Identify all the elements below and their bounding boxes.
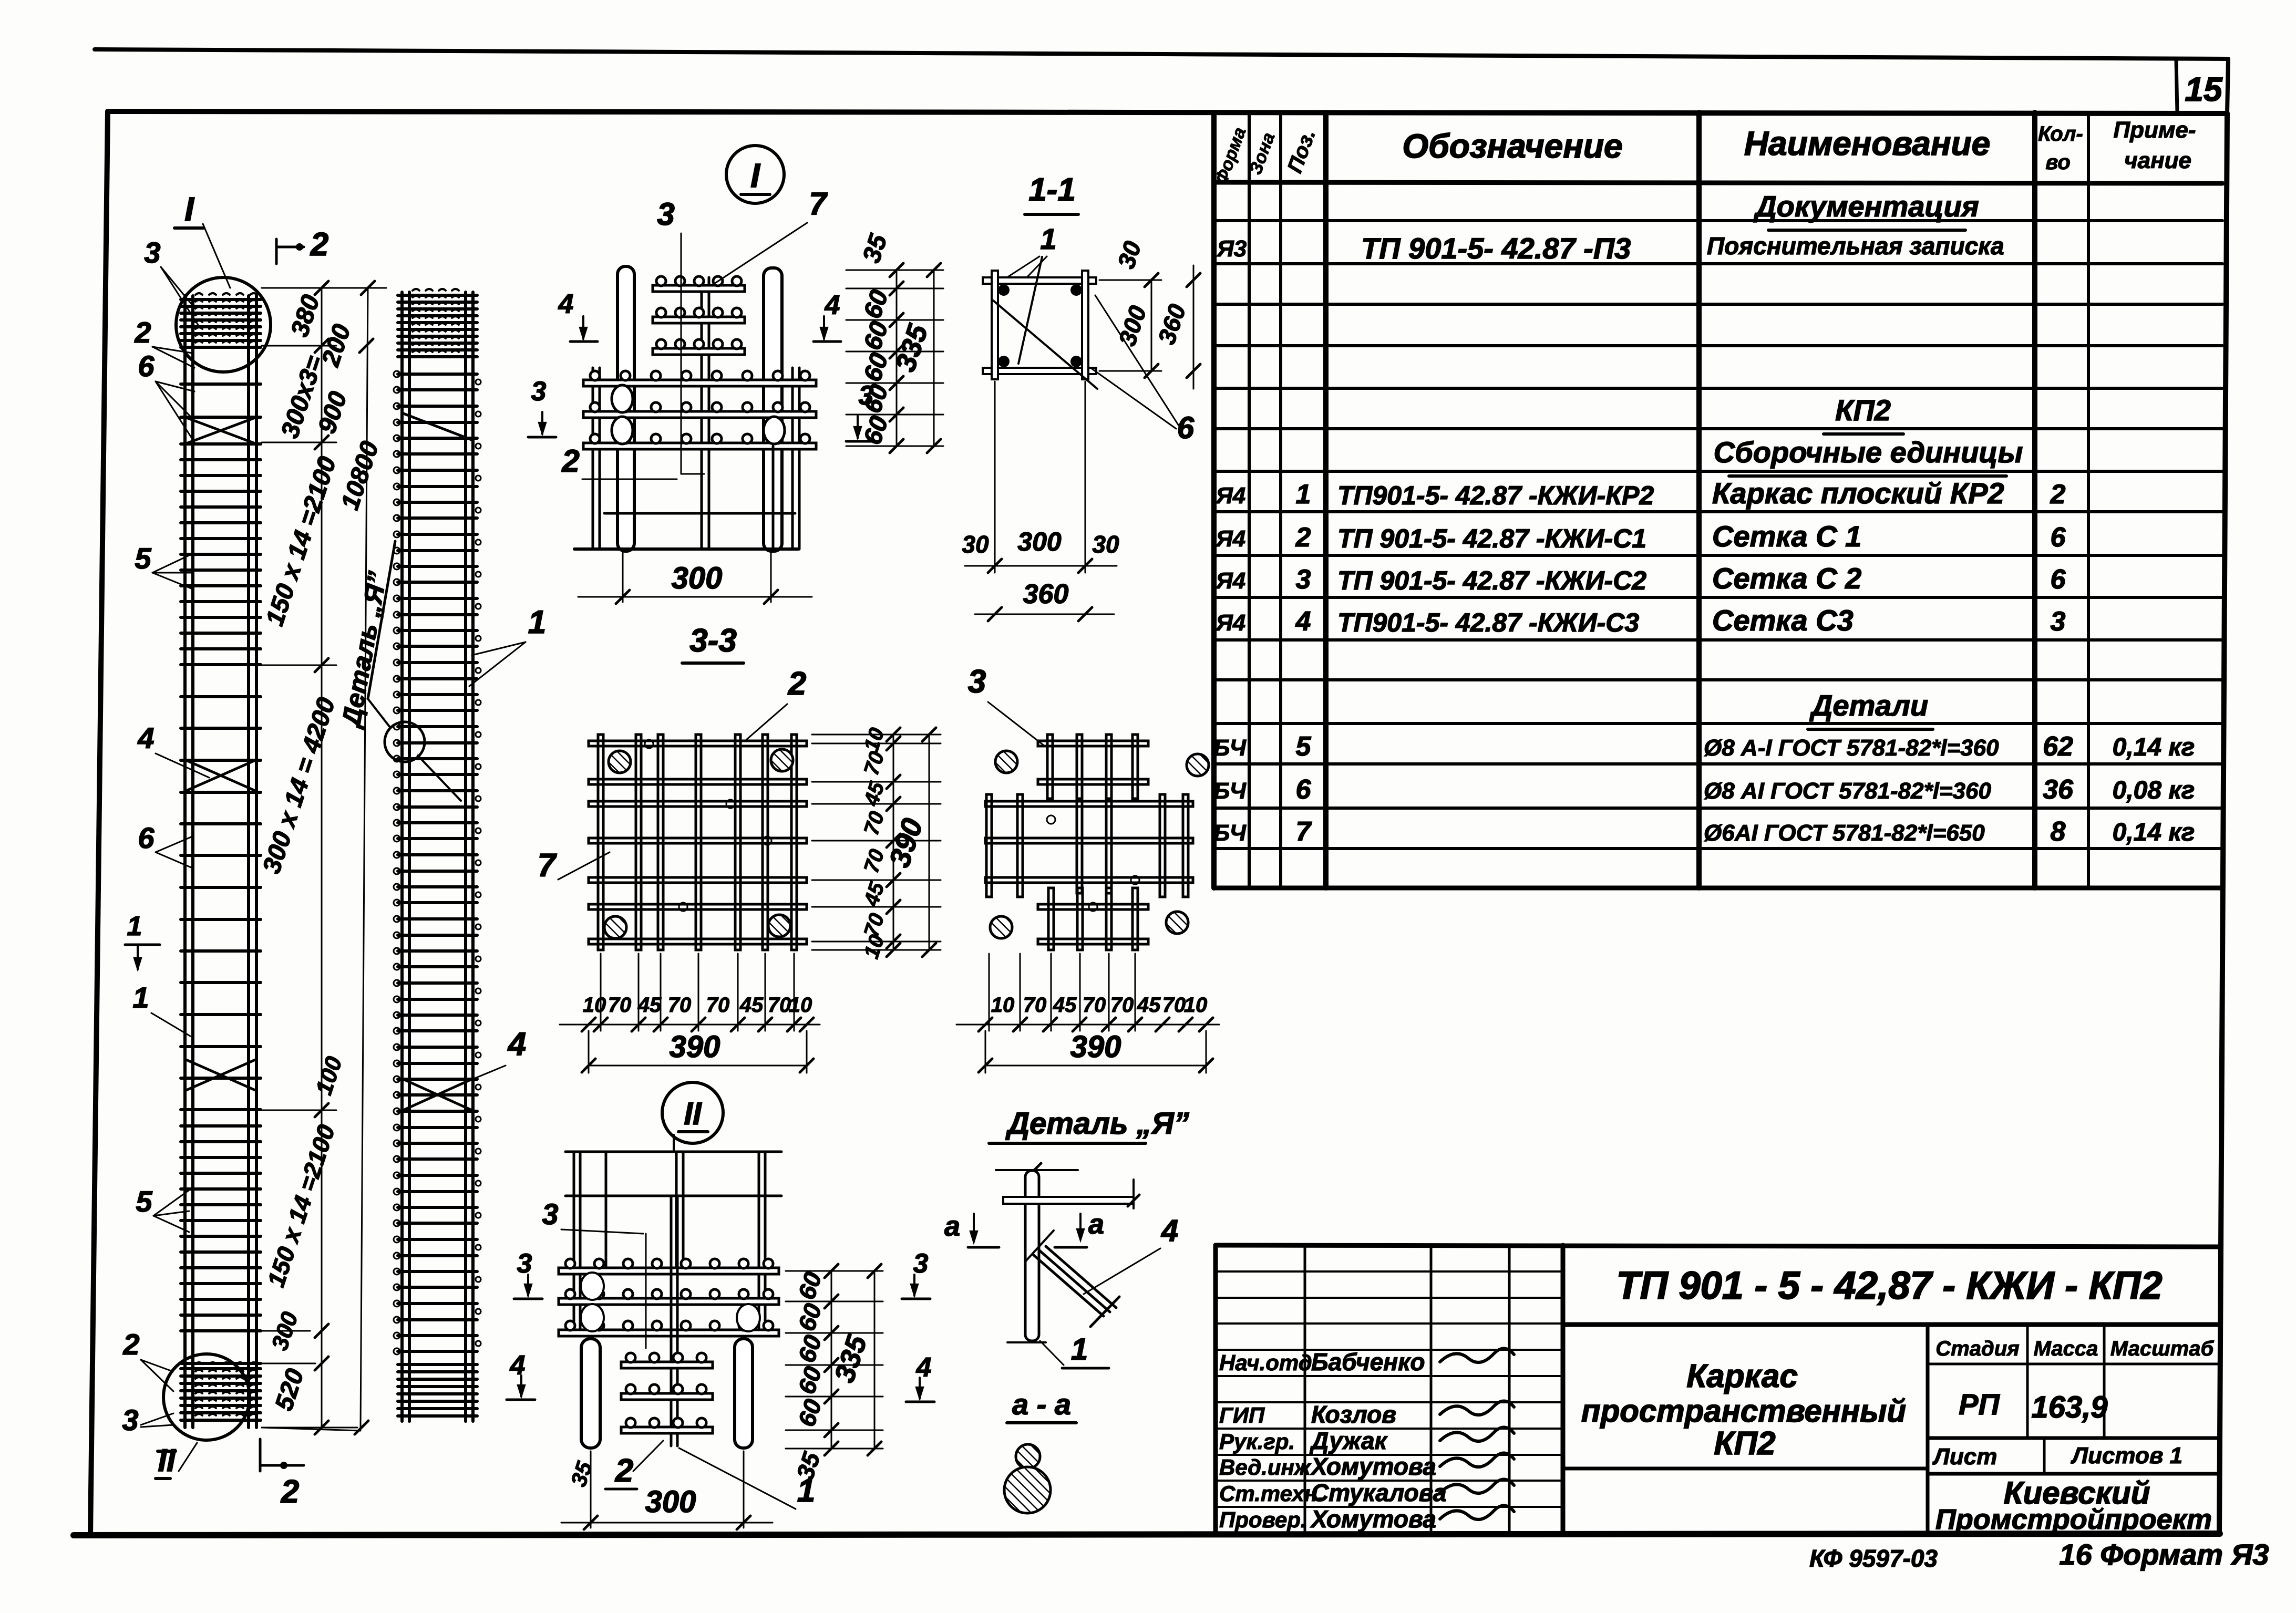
svg-text:пространственный: пространственный [1581, 1393, 1906, 1429]
svg-text:а: а [944, 1211, 960, 1242]
svg-text:Деталь „Я”: Деталь „Я” [1005, 1107, 1189, 1141]
svg-text:4: 4 [1295, 606, 1311, 637]
svg-text:5: 5 [135, 542, 151, 575]
svg-text:3: 3 [2051, 606, 2066, 637]
svg-text:БЧ: БЧ [1213, 778, 1247, 804]
svg-text:6: 6 [2051, 564, 2066, 595]
svg-text:45: 45 [739, 994, 764, 1017]
svg-text:Ø6АI ГОСТ 5781-82*l=650: Ø6АI ГОСТ 5781-82*l=650 [1704, 820, 1985, 846]
svg-text:Ст.техн.: Ст.техн. [1219, 1481, 1324, 1506]
svg-text:0,14 кг: 0,14 кг [2113, 733, 2195, 761]
svg-text:4: 4 [510, 1350, 526, 1381]
svg-text:3: 3 [1296, 564, 1311, 595]
svg-text:Провер.: Провер. [1219, 1507, 1307, 1532]
svg-text:Промстройпроект: Промстройпроект [1935, 1504, 2212, 1535]
svg-text:Листов 1: Листов 1 [2071, 1443, 2182, 1469]
svg-text:8: 8 [2051, 816, 2066, 847]
svg-text:Я4: Я4 [1216, 526, 1246, 552]
svg-text:7: 7 [809, 186, 828, 221]
svg-text:Каркас: Каркас [1686, 1358, 1798, 1394]
svg-text:70: 70 [768, 994, 791, 1017]
svg-text:2: 2 [122, 1328, 139, 1361]
svg-text:Приме-: Приме- [2113, 117, 2196, 143]
svg-text:62: 62 [2043, 731, 2073, 762]
svg-text:Сборочные единицы: Сборочные единицы [1714, 436, 2023, 469]
svg-text:390: 390 [670, 1030, 720, 1064]
svg-text:7: 7 [1296, 816, 1312, 847]
svg-text:4: 4 [558, 289, 574, 319]
svg-text:ГИП: ГИП [1219, 1403, 1265, 1428]
svg-text:5: 5 [1296, 731, 1312, 762]
svg-text:Обозначение: Обозначение [1402, 127, 1622, 165]
svg-text:70: 70 [668, 994, 692, 1017]
svg-text:70: 70 [608, 994, 632, 1017]
svg-text:30: 30 [1092, 531, 1119, 558]
svg-text:4: 4 [137, 721, 154, 754]
svg-text:390: 390 [1070, 1030, 1121, 1064]
svg-text:1-1: 1-1 [1028, 172, 1076, 208]
svg-text:Сетка С 1: Сетка С 1 [1712, 520, 1861, 553]
svg-text:КП2: КП2 [1835, 394, 1891, 427]
svg-text:Бабченко: Бабченко [1311, 1348, 1425, 1376]
svg-text:Стукалова: Стукалова [1311, 1479, 1446, 1506]
svg-text:Я4: Я4 [1216, 568, 1246, 594]
svg-text:Ø8 А-I ГОСТ 5781-82*l=360: Ø8 А-I ГОСТ 5781-82*l=360 [1704, 735, 1999, 761]
svg-text:1: 1 [1071, 1332, 1088, 1367]
svg-text:Пояснительная записка: Пояснительная записка [1707, 232, 2004, 260]
svg-text:3: 3 [531, 376, 547, 407]
svg-text:10: 10 [789, 994, 812, 1017]
svg-text:Я4: Я4 [1216, 483, 1246, 509]
svg-text:Детали: Детали [1809, 689, 1928, 722]
svg-text:0,14 кг: 0,14 кг [2113, 819, 2195, 846]
svg-text:6: 6 [2051, 522, 2066, 553]
svg-text:45: 45 [1053, 994, 1077, 1017]
svg-text:Дужак: Дужак [1309, 1427, 1388, 1454]
svg-text:Сетка С 2: Сетка С 2 [1712, 562, 1861, 595]
svg-text:300: 300 [645, 1485, 696, 1519]
svg-text:4: 4 [916, 1352, 932, 1383]
svg-text:45: 45 [1137, 994, 1161, 1017]
svg-text:Наименование: Наименование [1744, 125, 1990, 162]
svg-text:7: 7 [538, 847, 557, 884]
svg-text:II: II [684, 1096, 702, 1131]
svg-text:2: 2 [615, 1453, 633, 1489]
svg-text:4: 4 [507, 1026, 526, 1062]
svg-text:3: 3 [657, 197, 674, 232]
svg-text:70: 70 [706, 994, 730, 1017]
svg-text:2: 2 [310, 226, 328, 263]
svg-text:360: 360 [1023, 579, 1069, 609]
svg-text:Я4: Я4 [1216, 610, 1246, 636]
svg-text:Я3: Я3 [1217, 236, 1247, 262]
svg-text:3: 3 [517, 1248, 532, 1279]
svg-text:10: 10 [991, 994, 1015, 1017]
svg-text:70: 70 [1083, 994, 1106, 1017]
svg-text:300: 300 [672, 561, 723, 595]
svg-text:Козлов: Козлов [1311, 1401, 1396, 1428]
svg-text:10: 10 [583, 994, 606, 1017]
svg-text:Масштаб: Масштаб [2110, 1337, 2215, 1360]
svg-text:300: 300 [1017, 527, 1062, 556]
svg-text:Нач.отд: Нач.отд [1219, 1350, 1312, 1375]
svg-text:ТП901-5- 42.87 -КЖИ-КР2: ТП901-5- 42.87 -КЖИ-КР2 [1337, 481, 1654, 510]
svg-text:3: 3 [913, 1248, 929, 1279]
svg-text:70: 70 [1162, 994, 1186, 1017]
svg-text:15: 15 [2185, 70, 2223, 108]
svg-text:70: 70 [1110, 994, 1134, 1017]
svg-text:во: во [2045, 151, 2071, 174]
svg-text:1: 1 [1040, 222, 1056, 255]
svg-text:1: 1 [132, 981, 149, 1014]
svg-text:ТП 901-5- 42.87 -КЖИ-С2: ТП 901-5- 42.87 -КЖИ-С2 [1337, 566, 1646, 595]
svg-text:2: 2 [788, 666, 806, 702]
svg-text:Вед.инж: Вед.инж [1219, 1455, 1312, 1480]
svg-text:10: 10 [1184, 994, 1208, 1017]
svg-text:3-3: 3-3 [689, 623, 737, 659]
svg-text:1: 1 [1296, 479, 1311, 510]
svg-text:Хомутова: Хомутова [1310, 1505, 1436, 1533]
svg-text:Хомутова: Хомутова [1310, 1453, 1436, 1480]
svg-text:Документация: Документация [1753, 190, 1979, 223]
svg-text:6: 6 [138, 821, 155, 854]
svg-text:чание: чание [2124, 148, 2191, 173]
svg-text:Каркас плоский КР2: Каркас плоский КР2 [1712, 477, 2004, 510]
svg-text:а: а [1088, 1208, 1104, 1240]
svg-text:Лист: Лист [1932, 1444, 1998, 1470]
svg-text:Ø8 АI ГОСТ 5781-82*l=360: Ø8 АI ГОСТ 5781-82*l=360 [1704, 778, 1991, 804]
svg-text:2: 2 [134, 316, 151, 349]
svg-text:ТП901-5- 42.87 -КЖИ-С3: ТП901-5- 42.87 -КЖИ-С3 [1337, 608, 1639, 637]
svg-text:КФ 9597-03: КФ 9597-03 [1809, 1545, 1938, 1572]
svg-text:а - а: а - а [1012, 1388, 1071, 1421]
svg-text:Масса: Масса [2034, 1337, 2098, 1360]
svg-text:0,08 кг: 0,08 кг [2113, 777, 2195, 804]
svg-text:3: 3 [968, 664, 986, 700]
svg-text:163,9: 163,9 [2031, 1390, 2107, 1424]
svg-text:БЧ: БЧ [1213, 820, 1247, 846]
svg-text:2: 2 [1295, 522, 1311, 553]
svg-text:70: 70 [1023, 994, 1047, 1017]
svg-text:4: 4 [825, 290, 840, 320]
svg-text:Кол-: Кол- [2038, 122, 2083, 146]
svg-text:2: 2 [281, 1474, 299, 1510]
svg-text:1: 1 [528, 604, 546, 640]
svg-text:3: 3 [122, 1403, 138, 1436]
svg-text:ТП 901-5- 42.87 -П3: ТП 901-5- 42.87 -П3 [1361, 232, 1631, 265]
svg-text:1: 1 [797, 1473, 815, 1509]
svg-text:КП2: КП2 [1714, 1425, 1775, 1462]
svg-text:45: 45 [637, 994, 662, 1017]
svg-text:4: 4 [1161, 1214, 1178, 1248]
svg-text:ТП 901-5- 42.87 -КЖИ-С1: ТП 901-5- 42.87 -КЖИ-С1 [1337, 524, 1646, 553]
svg-text:6: 6 [1296, 774, 1312, 805]
svg-text:16 Формат Я3: 16 Формат Я3 [2059, 1538, 2269, 1571]
svg-text:Рук.гр.: Рук.гр. [1219, 1429, 1295, 1454]
svg-text:РП: РП [1959, 1388, 2000, 1421]
svg-text:6: 6 [1177, 411, 1195, 445]
svg-text:36: 36 [2043, 774, 2074, 805]
svg-text:Сетка С3: Сетка С3 [1712, 604, 1854, 637]
svg-text:I: I [184, 190, 194, 228]
svg-text:3: 3 [542, 1197, 558, 1231]
svg-text:3: 3 [144, 236, 160, 269]
svg-text:6: 6 [138, 349, 155, 382]
svg-text:ТП 901 - 5 - 42,87 - КЖИ - КП2: ТП 901 - 5 - 42,87 - КЖИ - КП2 [1616, 1264, 2162, 1307]
svg-text:II: II [158, 1443, 176, 1478]
svg-text:I: I [750, 157, 760, 194]
svg-text:БЧ: БЧ [1213, 735, 1247, 761]
svg-text:1: 1 [127, 911, 142, 942]
svg-text:2: 2 [561, 443, 579, 479]
svg-text:5: 5 [136, 1185, 152, 1218]
svg-text:2: 2 [2050, 479, 2066, 510]
svg-text:Стадия: Стадия [1935, 1337, 2019, 1360]
svg-text:30: 30 [962, 531, 989, 558]
